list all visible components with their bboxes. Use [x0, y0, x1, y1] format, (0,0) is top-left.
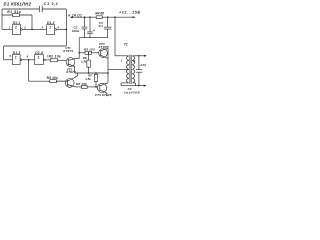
svg-text:1мк400В: 1мк400В: [124, 90, 140, 94]
svg-text:КТ973: КТ973: [63, 49, 73, 53]
svg-text:D1.3: D1.3: [13, 51, 21, 55]
svg-text:1,5к: 1,5к: [85, 77, 91, 81]
svg-text:Т1: Т1: [124, 42, 128, 46]
svg-text:1: 1: [38, 55, 40, 59]
svg-text:КТ973: КТ973: [66, 70, 76, 74]
svg-text:D1.4: D1.4: [35, 51, 43, 55]
svg-text:КТ805: КТ805: [99, 45, 109, 49]
svg-text:~220: ~220: [138, 63, 146, 67]
svg-text:1: 1: [15, 55, 17, 59]
svg-text:+: +: [93, 29, 95, 33]
svg-text:+12...15В: +12...15В: [119, 11, 140, 15]
svg-text:R1 91к: R1 91к: [7, 10, 21, 14]
svg-text:1: 1: [49, 26, 51, 30]
svg-text:К 14 D1: К 14 D1: [68, 14, 82, 18]
svg-text:R5 150: R5 150: [84, 48, 95, 52]
svg-text:R3 10к: R3 10к: [47, 76, 58, 80]
svg-text:D1.1: D1.1: [13, 21, 21, 25]
svg-text:2: 2: [132, 59, 135, 63]
svg-text:VT4 КТ805: VT4 КТ805: [95, 93, 112, 97]
svg-text:D1.2: D1.2: [47, 21, 55, 25]
svg-text:0,1: 0,1: [99, 24, 104, 28]
svg-text:C1 0,1: C1 0,1: [44, 2, 58, 6]
svg-text:D1 К561ЛН2: D1 К561ЛН2: [4, 2, 32, 7]
svg-text:100м: 100м: [72, 29, 80, 33]
svg-text:R2 10к: R2 10к: [49, 54, 61, 58]
svg-text:1: 1: [15, 26, 17, 30]
svg-text:1,5к: 1,5к: [81, 60, 87, 64]
svg-text:R8 150: R8 150: [76, 82, 87, 86]
svg-text:R4 68: R4 68: [95, 12, 104, 16]
